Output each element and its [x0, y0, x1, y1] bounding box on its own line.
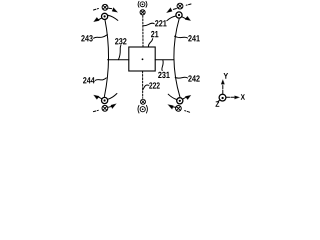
label 243: [81, 35, 92, 41]
bottom-right pivot (circled dot): [177, 98, 183, 104]
label Y: [224, 73, 229, 79]
leader for label 231: [162, 60, 163, 70]
bottom-center out-of-page symbol (circled dot in parens): [138, 105, 148, 113]
label 232: [115, 38, 126, 44]
bottom-left pivot (circled dot): [102, 97, 108, 103]
bottom-right corner beam stub: [168, 94, 176, 99]
leader for label 241: [175, 36, 188, 38]
label X: [241, 94, 245, 100]
right connecting beam 231: [155, 59, 174, 61]
top-right corner beam stub: [167, 16, 176, 21]
leader for label 222: [143, 85, 149, 90]
coordinate axes: [217, 80, 239, 102]
leader for label 242: [175, 77, 187, 78]
top-left pivot (circled dot): [102, 13, 108, 19]
label 242: [188, 75, 199, 81]
top-left vibration arrow (circled X with dashed tail): [94, 4, 118, 12]
leader for label 232: [118, 46, 120, 60]
bottom-right tangential arrow on pivot: [183, 95, 191, 99]
leader for label 243: [94, 35, 108, 39]
top-right pivot (circled dot): [176, 12, 182, 18]
Y axis arrow: [222, 84, 224, 94]
right vibrating arm 241/242 (bowed arc): [174, 19, 180, 98]
bottom-left corner beam stub: [108, 94, 117, 100]
X axis arrow: [226, 96, 235, 98]
label Z: [216, 101, 220, 106]
label 222: [149, 82, 160, 88]
mass block 21 (center square): [129, 47, 155, 71]
leader for label 21: [148, 39, 152, 47]
bottom-left vibration arrow (circled X with dashed tail): [93, 104, 116, 112]
left vibrating arm 243/244 (bowed arc): [104, 19, 108, 96]
wire: dashed support axis above square (221): [142, 16, 144, 47]
label 241: [188, 35, 200, 41]
label 231: [158, 72, 170, 78]
top-center into-page symbol (circled X): [140, 10, 145, 15]
wire: dashed support axis below square (222): [142, 71, 144, 98]
Z axis stub: [217, 100, 220, 102]
label 21: [151, 31, 158, 37]
top-center out-of-page symbol (circled dot in parens): [138, 1, 147, 7]
center dot of mass 21: [142, 58, 144, 60]
top-left corner beam stub: [108, 15, 118, 20]
top-left tangential arrow on pivot: [94, 17, 102, 21]
top-right tangential arrow on pivot: [182, 16, 190, 20]
bottom-right vibration arrow (circled X with dashed tail): [168, 105, 190, 113]
axis origin (circled dot, Z out of page): [219, 94, 226, 101]
label 221: [155, 20, 167, 26]
leader for label 221: [143, 23, 154, 26]
label 244: [83, 77, 95, 83]
bottom-center into-page symbol (circled X): [141, 99, 146, 104]
leader for label 244: [95, 78, 106, 81]
top-right vibration arrow (circled X with dashed tail): [167, 3, 191, 13]
left connecting beam 232: [108, 59, 129, 61]
bottom-left tangential arrow on pivot: [94, 95, 102, 99]
